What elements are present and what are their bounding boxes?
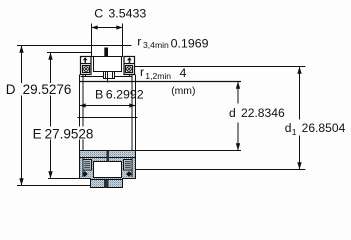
svg-text:1,2min: 1,2min (145, 71, 171, 81)
svg-text:D: D (6, 82, 16, 97)
svg-text:d: d (285, 121, 292, 135)
svg-text:26.8504: 26.8504 (302, 121, 346, 135)
svg-text:22.8346: 22.8346 (241, 106, 285, 120)
svg-text:4: 4 (180, 66, 187, 80)
svg-text:r: r (140, 65, 144, 79)
svg-text:6.2992: 6.2992 (106, 88, 144, 102)
svg-text:B: B (95, 88, 103, 102)
svg-text:d: d (229, 106, 236, 120)
svg-text:C: C (94, 7, 103, 21)
svg-text:29.5276: 29.5276 (23, 82, 72, 97)
svg-text:3.5433: 3.5433 (108, 7, 146, 21)
svg-text:1: 1 (292, 127, 297, 137)
svg-text:27.9528: 27.9528 (45, 126, 94, 141)
svg-text:3,4min: 3,4min (143, 40, 169, 50)
svg-text:r: r (137, 34, 141, 48)
svg-text:0.1969: 0.1969 (171, 36, 209, 50)
svg-text:E: E (33, 126, 42, 141)
svg-text:(mm): (mm) (171, 86, 195, 97)
